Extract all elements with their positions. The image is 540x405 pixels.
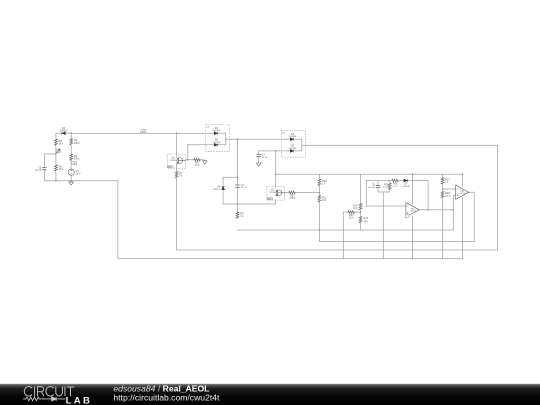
wire Q2 emitter (275, 200, 277, 205)
svg-text:out: out (142, 130, 145, 133)
svg-text:1N4148: 1N4148 (402, 186, 410, 188)
resistor R3 (55, 139, 64, 146)
wire op-amp2 power drop (461, 198, 463, 259)
wire C4 to ground stem (258, 151, 260, 162)
transistor Q2 symbol (276, 190, 285, 196)
svg-text:300 k: 300 k (74, 142, 81, 145)
svg-text:470 k: 470 k (289, 197, 296, 200)
transistor Q2 box (267, 186, 285, 200)
node flag below OA1 (405, 215, 409, 218)
svg-text:12 V: 12 V (76, 172, 81, 175)
wire op-amp1 output and feedback (419, 181, 453, 231)
svg-text:LM741: LM741 (460, 193, 467, 195)
capacitor C3 (235, 184, 247, 189)
diode D2 (213, 127, 221, 135)
wire bus3 (177, 249, 498, 251)
wire D6 C3 branch (223, 139, 276, 212)
capacitor C2 (35, 165, 46, 172)
wire op-amp1 power drops (412, 174, 414, 258)
svg-text:1N4148: 1N4148 (289, 148, 297, 150)
svg-text:2N3904: 2N3904 (269, 192, 277, 194)
diode D6 vertical (213, 185, 225, 190)
wire pot tap to cap (44, 154, 56, 181)
diode D1 on main wire (59, 126, 68, 135)
wire op-amp2 inputs (443, 189, 456, 195)
wire main top net from left divider to U1 (56, 132, 214, 134)
package U2 box (281, 130, 305, 157)
wire left divider column (55, 133, 57, 181)
wire Q1 emitter to bus (176, 164, 178, 250)
diode D5 (289, 145, 297, 153)
svg-text:10 uF: 10 uF (262, 157, 268, 159)
wire op-amp2 output drop (469, 192, 475, 241)
svg-text:10 uF: 10 uF (35, 169, 42, 172)
svg-text:10 k: 10 k (59, 168, 64, 171)
resistor R13 (353, 203, 362, 210)
resistor R11 (318, 195, 327, 202)
resistor R10 (318, 179, 327, 186)
op-amp OA2 (456, 185, 469, 199)
thermistor wiper (55, 149, 60, 155)
diode D7 series (402, 179, 410, 188)
wire Q1 collector (176, 133, 178, 157)
svg-text:1N4007: 1N4007 (213, 189, 221, 191)
resistor R2 (70, 154, 81, 161)
wire Q2 collector (275, 151, 277, 187)
wire bus2 (319, 241, 474, 243)
resistor R8 base (289, 191, 296, 200)
wire bus1 (238, 229, 454, 231)
resistor R6 base pulldown (194, 158, 200, 167)
svg-text:LAB: LAB (66, 395, 93, 405)
FOOTER PLACEHOLDER (0, 383, 540, 405)
svg-text:http://circuitlab.com/cwu2t4t: http://circuitlab.com/cwu2t4t (113, 392, 220, 402)
svg-text:1N4148: 1N4148 (289, 136, 297, 138)
resistor R16 series (392, 179, 399, 188)
wire U1 internals and output to U2 (188, 133, 290, 145)
wire Q1 base node (186, 145, 204, 160)
svg-text:10 k: 10 k (195, 164, 200, 167)
package U1 box (206, 124, 230, 151)
ground at R6 (203, 160, 208, 164)
wire supply rail (276, 174, 463, 186)
svg-text:1N4148: 1N4148 (213, 130, 221, 132)
transistor Q1 symbol (177, 158, 186, 164)
resistor R14 (359, 216, 369, 223)
svg-text:LM741: LM741 (410, 211, 417, 213)
svg-text:4.7 k: 4.7 k (445, 195, 451, 198)
svg-text:10 k: 10 k (363, 220, 368, 223)
resistor R5 (55, 165, 64, 172)
voltage source V1 (68, 169, 81, 176)
resistor R15 (383, 183, 391, 189)
resistor R17 (441, 177, 450, 184)
wire source column (70, 133, 72, 181)
svg-text:1N4007: 1N4007 (59, 129, 68, 132)
wire RC network rails (366, 181, 428, 207)
wire R12 branch (343, 212, 360, 259)
capacitor C5 (368, 184, 380, 189)
resistor R7 emitter (175, 171, 183, 178)
transistor Q1 box (167, 154, 185, 168)
resistor R18 (441, 191, 451, 198)
wire op-amp1 minus input (366, 205, 406, 207)
resistor R1 (70, 138, 81, 145)
wire column R13 R14 (360, 174, 362, 230)
svg-text:300 k: 300 k (74, 157, 81, 160)
diode D4 (289, 133, 297, 141)
wire left drop to bottom bus (117, 181, 119, 259)
diode D3 (213, 138, 221, 146)
wire left bottom rail (44, 180, 118, 182)
wire column R17 R18 (442, 174, 444, 258)
svg-text:10 k: 10 k (349, 217, 354, 220)
svg-text:10 k: 10 k (59, 142, 64, 145)
svg-text:100 pF: 100 pF (368, 187, 375, 189)
wire bus4 (118, 258, 463, 260)
wire U2 internals and output to far right (259, 139, 498, 151)
capacitor C4 (257, 154, 268, 159)
svg-text:470 k: 470 k (383, 187, 389, 189)
junction dots (55, 132, 463, 230)
wire Q2 base to column (285, 192, 320, 194)
wire far right vertical (496, 145, 498, 250)
wire RC bottom dropper (382, 192, 384, 259)
ground at C4 (256, 162, 261, 166)
ground left (69, 181, 74, 185)
wire column R10 R11 (318, 174, 320, 241)
svg-text:10 uF: 10 uF (241, 187, 247, 189)
resistor R12 horizontal (348, 211, 354, 220)
net flag on main wire (140, 129, 146, 133)
svg-text:1N4148: 1N4148 (213, 142, 221, 144)
op-amp OA1 (406, 203, 419, 217)
resistor R9 (236, 212, 244, 219)
svg-text:10 k: 10 k (353, 207, 358, 210)
node flag vcc (71, 161, 77, 165)
svg-text:10 k: 10 k (322, 199, 327, 202)
